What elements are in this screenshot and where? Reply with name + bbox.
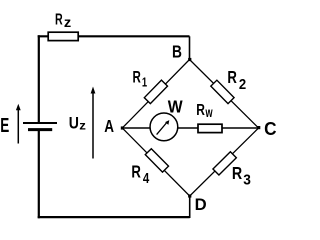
wire: left vertical upper segment (top-left corner down to battery): [38, 35, 40, 122]
svg-text:R: R: [55, 10, 63, 27]
node A junction dot: [121, 126, 124, 129]
svg-text:A: A: [104, 118, 114, 137]
galvanometer W (meter circle with needle): [150, 113, 178, 141]
wire: vertical riser from bottom wire up to node D: [189, 196, 191, 218]
svg-text:R: R: [131, 163, 141, 182]
svg-text:D: D: [195, 195, 207, 214]
wire: bridge diagonal A to D: [122, 128, 189, 196]
wire: right vertical drop from top wire down to node B: [189, 36, 191, 59]
label R1: [132, 69, 147, 90]
svg-text:R: R: [232, 164, 243, 184]
label R2: [227, 68, 246, 92]
svg-text:3: 3: [243, 172, 251, 189]
svg-text:R: R: [227, 68, 237, 87]
svg-text:z: z: [64, 15, 71, 30]
wire: center horizontal A to C through meter and Rw: [122, 127, 258, 129]
resistor R4 (box on arm A-D): [145, 149, 168, 172]
label Uz: [69, 114, 86, 133]
resistor Rw (box on center wire): [198, 124, 222, 132]
wire: bridge diagonal D to C: [190, 128, 259, 196]
label Rw: [196, 100, 213, 121]
svg-text:R: R: [132, 69, 140, 88]
wire: left vertical lower segment (battery down to bottom-left corner): [38, 131, 40, 218]
svg-text:E: E: [0, 114, 9, 136]
node B junction dot: [188, 58, 191, 61]
battery E: short thick negative plate: [28, 128, 52, 131]
wire: bottom horizontal from bottom-left corner to below node D: [38, 216, 190, 218]
wire: bridge diagonal B to C: [190, 60, 259, 129]
arrow for E (points up): [16, 104, 21, 144]
resistor R3 (box on arm D-C): [213, 152, 236, 175]
svg-text:1: 1: [142, 76, 148, 90]
node C junction dot: [257, 126, 260, 129]
label R3: [232, 164, 251, 189]
label R4: [131, 163, 149, 187]
arrow for Uz (points up): [91, 87, 96, 159]
svg-text:R: R: [196, 100, 205, 118]
svg-text:4: 4: [143, 170, 150, 187]
label Rz: [55, 10, 71, 30]
resistor R2 (box on arm B-C): [211, 80, 234, 103]
svg-text:2: 2: [239, 75, 246, 92]
battery E: long thin positive plate: [23, 122, 57, 124]
svg-text:B: B: [172, 43, 182, 62]
node D junction dot: [188, 194, 191, 197]
svg-text:z: z: [79, 118, 86, 132]
wire: bridge diagonal A to B: [122, 60, 189, 129]
svg-text:w: w: [205, 104, 213, 121]
resistor Rz (box on top wire): [48, 32, 78, 40]
svg-text:C: C: [264, 118, 277, 139]
svg-text:W: W: [168, 97, 183, 117]
svg-text:U: U: [69, 114, 79, 133]
resistor R1 (box on arm A-B): [144, 80, 167, 103]
wire: top horizontal from top-left corner to top-right corner: [38, 35, 190, 37]
